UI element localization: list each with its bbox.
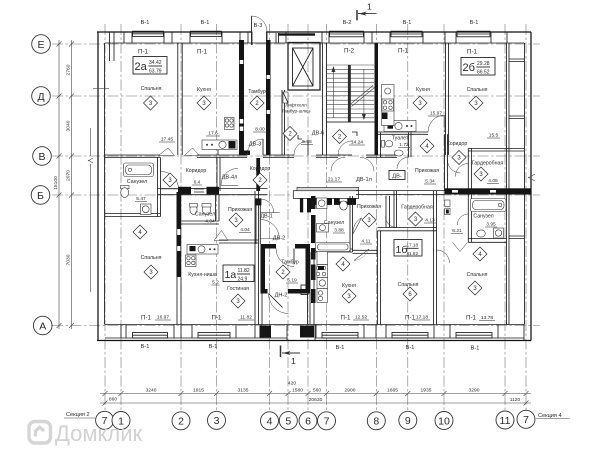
svg-text:Спальня: Спальня	[467, 87, 488, 93]
svg-text:П-2: П-2	[344, 48, 355, 55]
horizontal axis line A	[52, 325, 540, 327]
svg-text:Кухня-ниша: Кухня-ниша	[188, 272, 217, 278]
svg-text:ДВ-1: ДВ-1	[260, 214, 273, 220]
wardrobe413 walls	[378, 191, 437, 231]
svg-text:5.2: 5.2	[212, 280, 219, 286]
svg-text:2070: 2070	[66, 170, 72, 181]
svg-text:ДВ-3: ДВ-3	[249, 142, 262, 148]
svg-text:8.00: 8.00	[255, 127, 265, 133]
svg-text:Кухня: Кухня	[416, 87, 430, 93]
svg-text:6.21: 6.21	[452, 228, 462, 234]
bathroom388 toilet	[340, 199, 348, 202]
axis circle D	[32, 87, 51, 106]
svg-text:3135: 3135	[238, 388, 249, 394]
svg-text:2б: 2б	[463, 62, 475, 74]
svg-text:В-3: В-3	[254, 23, 263, 29]
svg-text:Коридор: Коридор	[447, 141, 468, 147]
svg-text:В-1: В-1	[470, 20, 479, 26]
bathroom547 walls	[105, 157, 161, 216]
left balcony outer line with break	[88, 128, 93, 292]
svg-text:1120: 1120	[510, 397, 521, 403]
vertical axis line 11	[504, 24, 506, 411]
bottom wall verticals	[121, 325, 524, 341]
small shaft near lift	[283, 92, 288, 103]
vertical axis line 2	[180, 24, 182, 411]
wall flat2a bedroom-kitchen	[178, 43, 182, 155]
door arc stair room	[338, 141, 352, 155]
bottom inner wall line	[105, 324, 524, 326]
svg-text:2900: 2900	[345, 388, 356, 394]
hallway411 right wall	[386, 196, 390, 228]
grid circle 8	[367, 412, 385, 430]
corridor wall stub	[217, 150, 220, 191]
left dimension line outer	[58, 40, 60, 329]
svg-text:Спальня: Спальня	[467, 272, 488, 278]
stairwell right wall thick	[375, 43, 379, 155]
svg-text:63.79: 63.79	[149, 69, 162, 75]
svg-text:Коридор: Коридор	[186, 168, 207, 174]
axis circle A	[33, 316, 52, 335]
svg-text:8: 8	[373, 416, 379, 428]
grid circle 6	[299, 412, 317, 430]
svg-text:Коридор: Коридор	[250, 166, 271, 172]
door arc bathroom547	[161, 172, 179, 190]
room tambur-shluz 1424	[333, 130, 347, 144]
corridor left wall lower center	[256, 198, 260, 244]
kitchen-niche stove	[186, 255, 197, 267]
left wall stub top	[110, 32, 115, 61]
svg-text:Б: Б	[37, 190, 44, 202]
grid circle 2	[172, 412, 190, 430]
vertical axis line 4	[269, 24, 271, 411]
toilet wc2b	[382, 140, 385, 147]
svg-text:15.5: 15.5	[489, 133, 499, 139]
svg-text:В-1: В-1	[336, 345, 345, 351]
door label box	[389, 171, 405, 180]
svg-text:П-1: П-1	[138, 49, 149, 56]
svg-text:13.78: 13.78	[481, 315, 494, 321]
svg-text:15100: 15100	[53, 176, 59, 190]
svg-text:7: 7	[523, 414, 529, 426]
thick wall tambur right	[266, 40, 271, 155]
svg-text:Кухня: Кухня	[197, 87, 211, 93]
porch corner blocks	[260, 326, 272, 338]
stair stringer	[348, 65, 351, 122]
door triangle kitchen2a	[185, 148, 200, 156]
kitchen 2b bottom wall	[378, 132, 428, 134]
svg-text:Прихожая: Прихожая	[357, 204, 381, 210]
stair treads	[327, 65, 374, 122]
wall below stairs room1424	[327, 121, 375, 123]
washer in bathroom547	[141, 204, 152, 215]
svg-text:Тамбур: Тамбур	[248, 89, 266, 95]
porch walls below tambour	[262, 294, 308, 325]
svg-text:Секция 4: Секция 4	[538, 413, 562, 419]
svg-text:5.38: 5.38	[302, 139, 312, 145]
svg-text:Спальня: Спальня	[141, 86, 162, 92]
vertical axis line 8	[375, 24, 377, 411]
svg-text:1935: 1935	[421, 388, 432, 394]
svg-text:11: 11	[500, 415, 511, 427]
corridor band wall B right	[356, 191, 445, 195]
kitchen 2b door arc	[428, 115, 445, 132]
svg-text:Лифтхолл: Лифтхолл	[285, 103, 307, 108]
svg-text:5.19: 5.19	[287, 278, 297, 284]
hallway-corridor 2b divider	[445, 134, 448, 190]
svg-text:Прихожая: Прихожая	[415, 168, 439, 174]
svg-text:17.6: 17.6	[208, 131, 218, 137]
vertical axis line 7r	[525, 24, 527, 411]
vertical axis line 1	[120, 24, 122, 411]
svg-text:20630: 20630	[309, 397, 323, 403]
svg-text:ДН-2: ДН-2	[275, 293, 288, 299]
axis circle V	[33, 147, 52, 166]
vertical axis line 7b	[326, 24, 328, 411]
svg-text:П-1: П-1	[141, 315, 152, 322]
svg-text:15.97: 15.97	[430, 111, 443, 117]
svg-text:В-2: В-2	[343, 20, 352, 26]
grid circle 1	[112, 412, 130, 430]
wall bedroom-livingroom lower-left	[177, 277, 181, 325]
bathroom395 washer	[494, 228, 504, 238]
door arc hallway534	[331, 157, 374, 171]
svg-text:420: 420	[288, 381, 296, 387]
door arc lifthall	[294, 141, 308, 155]
svg-text:10: 10	[438, 415, 450, 427]
grid circle 11	[496, 411, 514, 429]
svg-text:3.95: 3.95	[486, 222, 496, 228]
right strip sill ticks	[509, 59, 524, 239]
tambour inner door arc	[276, 249, 294, 267]
svg-text:Е: Е	[37, 39, 44, 51]
thick wall lower-left black	[177, 192, 182, 277]
svg-text:24.9: 24.9	[238, 277, 248, 283]
svg-text:П-1: П-1	[398, 48, 409, 55]
svg-text:В: В	[38, 151, 45, 163]
top wall verticals between windows	[124, 32, 507, 43]
svg-text:В-1: В-1	[141, 344, 150, 350]
svg-text:Д: Д	[37, 91, 44, 103]
svg-text:1: 1	[291, 356, 296, 366]
svg-text:21.17: 21.17	[328, 177, 341, 183]
svg-text:1: 1	[367, 2, 372, 12]
svg-text:П-1: П-1	[467, 49, 478, 56]
bathroom388 washer	[317, 198, 328, 209]
svg-text:1665: 1665	[387, 388, 398, 394]
svg-text:7: 7	[324, 416, 330, 428]
svg-text:6: 6	[305, 416, 311, 428]
grid circle 7b	[318, 412, 336, 430]
door triangle corridor621	[453, 242, 468, 251]
grid circle 7 left	[96, 411, 114, 429]
vertical axis line 6	[307, 24, 309, 411]
horizontal axis line V	[52, 155, 540, 157]
thick wall tambur left	[239, 40, 244, 155]
svg-text:29.28: 29.28	[477, 61, 490, 67]
top inner wall line	[105, 42, 524, 44]
svg-text:3240: 3240	[146, 388, 157, 394]
svg-text:Кухня: Кухня	[342, 283, 356, 289]
svg-text:560: 560	[313, 388, 321, 394]
bottom outer wall line	[97, 340, 531, 342]
door arc DV-3 tambur	[247, 139, 263, 155]
svg-text:ДВ-6: ДВ-6	[312, 131, 325, 137]
corridor band wall B axis left	[157, 189, 268, 195]
svg-text:14.24: 14.24	[351, 140, 364, 146]
bottom dim ticks row2	[103, 401, 529, 406]
svg-text:ДВ-: ДВ-	[392, 174, 402, 180]
svg-text:3: 3	[214, 415, 220, 427]
bathroom388 sink	[317, 224, 329, 233]
vertical axis line 10	[443, 24, 445, 411]
svg-text:4.04: 4.04	[205, 219, 215, 225]
hallway411 bottom wall	[353, 250, 378, 253]
kitchen1b left wall black	[311, 196, 316, 303]
vent shafts corridor621	[445, 200, 450, 207]
axis circle E	[32, 35, 51, 54]
entrance door DN-2 arc	[269, 294, 289, 314]
window V-1 top b	[191, 31, 222, 36]
bottom dim ticks row1	[103, 391, 529, 396]
svg-text:Санузел: Санузел	[127, 179, 147, 185]
room bedroom lower-left	[133, 225, 147, 239]
svg-text:9: 9	[405, 415, 411, 427]
horizontal axis line B	[52, 194, 540, 196]
svg-text:17.18: 17.18	[407, 243, 419, 248]
bottom dimension line total	[100, 402, 531, 404]
elevator shaft inner with X	[293, 48, 314, 86]
flat label 1b	[394, 240, 422, 257]
svg-text:Тамбур-шлюз: Тамбур-шлюз	[281, 109, 310, 114]
top outer wall line	[97, 31, 531, 33]
svg-text:Санузел: Санузел	[195, 212, 215, 218]
room bedroom right	[473, 247, 487, 261]
svg-text:В-1: В-1	[403, 20, 412, 26]
svg-text:860: 860	[109, 397, 117, 403]
door arc hall 2b	[448, 160, 461, 173]
svg-text:В-1: В-1	[201, 20, 210, 26]
vertical axis line 3	[216, 24, 218, 411]
svg-text:6.4: 6.4	[194, 180, 201, 186]
left dimension line inner	[71, 40, 73, 329]
door V-3 top arc	[252, 31, 266, 34]
door triangle hallway404	[214, 231, 228, 241]
svg-text:1а: 1а	[225, 269, 237, 281]
svg-text:Домклик: Домклик	[55, 421, 143, 446]
flat label 2a	[133, 57, 167, 75]
wall kitchen-bedroom 1b	[378, 231, 381, 325]
vertical axis line 7	[104, 24, 106, 411]
svg-text:17.18: 17.18	[416, 315, 429, 321]
door arc wardrobe413	[386, 217, 397, 228]
kitchen1b fixtures column	[317, 252, 328, 265]
left balcony divider	[93, 88, 109, 90]
vertical axis line 9	[407, 24, 409, 411]
bath in bathroom547	[124, 163, 154, 177]
wardrobe405 left wall	[468, 149, 471, 191]
svg-text:11.82: 11.82	[238, 268, 250, 274]
dark lintel over elevator zone	[278, 33, 315, 35]
stair break diagonal	[350, 86, 375, 107]
door arc wardrobe405	[455, 164, 468, 177]
window V-1 bottom b	[198, 333, 230, 339]
bathroom388 walls	[314, 196, 353, 252]
window V-1 bottom c	[322, 333, 358, 339]
corner mark lifthall	[298, 135, 302, 139]
stair guide arrows	[332, 72, 334, 118]
door arc DV-2	[260, 199, 274, 213]
svg-text:2: 2	[178, 416, 184, 428]
svg-text:П-1: П-1	[466, 315, 477, 322]
svg-text:1915: 1915	[193, 388, 204, 394]
svg-text:ДВ-1л: ДВ-1л	[356, 177, 372, 183]
svg-text:2760: 2760	[66, 64, 72, 75]
vertical axis line 5	[287, 24, 289, 411]
svg-text:3.88: 3.88	[334, 228, 344, 234]
kitchen 2b bottom counter	[384, 121, 416, 132]
door leaf hallway411-kitchen	[354, 249, 369, 261]
door arc DV-1	[260, 220, 279, 239]
svg-text:Санузел: Санузел	[324, 220, 344, 226]
door arc wc 2b	[397, 157, 409, 169]
right inner double wall	[507, 43, 510, 325]
porch window right	[301, 285, 308, 295]
flat label 2b	[461, 58, 495, 76]
svg-text:3290: 3290	[469, 388, 480, 394]
flat label 1a	[223, 265, 254, 282]
grid circle 10	[435, 412, 453, 430]
svg-text:16.97: 16.97	[157, 315, 170, 321]
window V-2 top stairs	[330, 31, 364, 37]
black corner near tambur	[240, 151, 250, 156]
svg-text:4.05: 4.05	[488, 178, 498, 184]
svg-text:В-1: В-1	[471, 346, 480, 352]
right wall break mark	[528, 174, 535, 181]
axis circle B	[31, 186, 50, 205]
kitchen2a stove	[225, 118, 235, 130]
window V-1 bottom d	[392, 333, 428, 339]
hallway404 bottom wall	[219, 240, 259, 243]
window V-1 top c	[391, 31, 422, 37]
kitchen-niche counter with sink	[187, 245, 218, 255]
grid circle 9	[399, 411, 417, 429]
toilet in bathroom547	[121, 186, 130, 189]
svg-text:В-1: В-1	[209, 344, 218, 350]
svg-text:Секция 2: Секция 2	[66, 412, 90, 418]
corridor band wall B axis black center	[293, 191, 358, 199]
stairwell left wall	[323, 43, 327, 155]
svg-text:П-1: П-1	[341, 315, 352, 322]
bathroom404 toilet	[190, 205, 197, 215]
entrance tambour walls black	[261, 244, 266, 294]
kitchen2b counter column	[382, 85, 395, 126]
svg-text:ДВ-2: ДВ-2	[273, 236, 286, 242]
svg-text:17.45: 17.45	[161, 137, 174, 143]
svg-text:Прихожая: Прихожая	[228, 207, 252, 213]
svg-text:3040: 3040	[66, 120, 72, 131]
svg-text:41.82: 41.82	[407, 251, 419, 256]
bathroom404 walls	[181, 195, 219, 224]
svg-text:Спальня: Спальня	[141, 255, 162, 261]
bathroom404 sink	[202, 205, 210, 215]
svg-text:11.82: 11.82	[240, 315, 252, 321]
svg-text:12.52: 12.52	[355, 315, 368, 321]
right outer wall	[530, 32, 532, 341]
bathroom395 bottom wall	[468, 239, 506, 243]
svg-text:В-1: В-1	[406, 345, 415, 351]
wall flat2b kitchen-bedroom	[446, 43, 449, 155]
svg-text:Гардеробная: Гардеробная	[401, 205, 433, 211]
svg-text:Санузел: Санузел	[473, 214, 493, 220]
window V-1 top a	[133, 31, 164, 36]
bathroom388 bathtub	[316, 243, 351, 252]
door triangle bedroom2a	[159, 148, 175, 156]
wall bedroom1b right	[434, 191, 437, 325]
svg-text:5: 5	[285, 415, 291, 427]
kitchen2a counter and sink	[202, 140, 237, 150]
svg-text:П-1: П-1	[197, 49, 208, 56]
wc 2b walls	[381, 133, 412, 158]
svg-text:66.52: 66.52	[477, 70, 490, 76]
window V-1 top d	[457, 31, 490, 37]
left outer wall	[97, 32, 99, 341]
lift hall left wall	[282, 90, 285, 155]
svg-text:5.47: 5.47	[136, 196, 146, 202]
horizontal axis line D	[52, 95, 540, 97]
window V-1 bottom e	[456, 333, 492, 339]
grid circle 4	[261, 412, 279, 430]
svg-text:Спальня: Спальня	[398, 282, 419, 288]
grid circle 3	[208, 411, 226, 429]
svg-text:4.11: 4.11	[361, 239, 370, 245]
watermark logo rounded square	[29, 422, 51, 444]
svg-text:А: А	[39, 320, 46, 332]
svg-text:7030: 7030	[66, 254, 72, 265]
svg-text:4.13: 4.13	[425, 218, 435, 224]
svg-text:4.04: 4.04	[240, 227, 250, 233]
door arc bathroom388	[353, 218, 362, 234]
svg-text:5.34: 5.34	[425, 179, 435, 185]
horizontal wall under upper rooms	[105, 149, 524, 158]
grid circle 7 right	[517, 410, 535, 428]
svg-text:В-1: В-1	[141, 20, 150, 26]
svg-text:34.42: 34.42	[149, 60, 162, 66]
wall livingroom right	[255, 191, 259, 325]
svg-text:Туалет: Туалет	[392, 135, 409, 141]
svg-text:Гардеробная: Гардеробная	[472, 161, 504, 167]
svg-text:Тамбур: Тамбур	[281, 260, 299, 266]
svg-text:1580: 1580	[292, 388, 303, 394]
window V-1 bottom a	[133, 333, 168, 339]
door arc bathroom395	[457, 214, 468, 225]
corridor621 walls	[468, 195, 471, 243]
svg-text:2а: 2а	[135, 61, 148, 73]
grid circle 5	[279, 412, 297, 430]
left dim ticks	[57, 42, 75, 329]
door arc bedroom right	[437, 250, 450, 263]
bottom dimension line segments	[100, 393, 531, 395]
svg-text:П-1: П-1	[212, 315, 223, 322]
svg-text:4: 4	[267, 416, 273, 428]
svg-text:Гостиная: Гостиная	[227, 286, 249, 292]
bathroom395 sink	[477, 230, 486, 237]
bathroom395 bathtub	[471, 199, 507, 212]
svg-text:П-1: П-1	[405, 315, 416, 322]
elevator shaft outer	[288, 43, 320, 91]
room kitchen 1b	[336, 257, 350, 271]
horizontal axis line E	[52, 43, 540, 45]
